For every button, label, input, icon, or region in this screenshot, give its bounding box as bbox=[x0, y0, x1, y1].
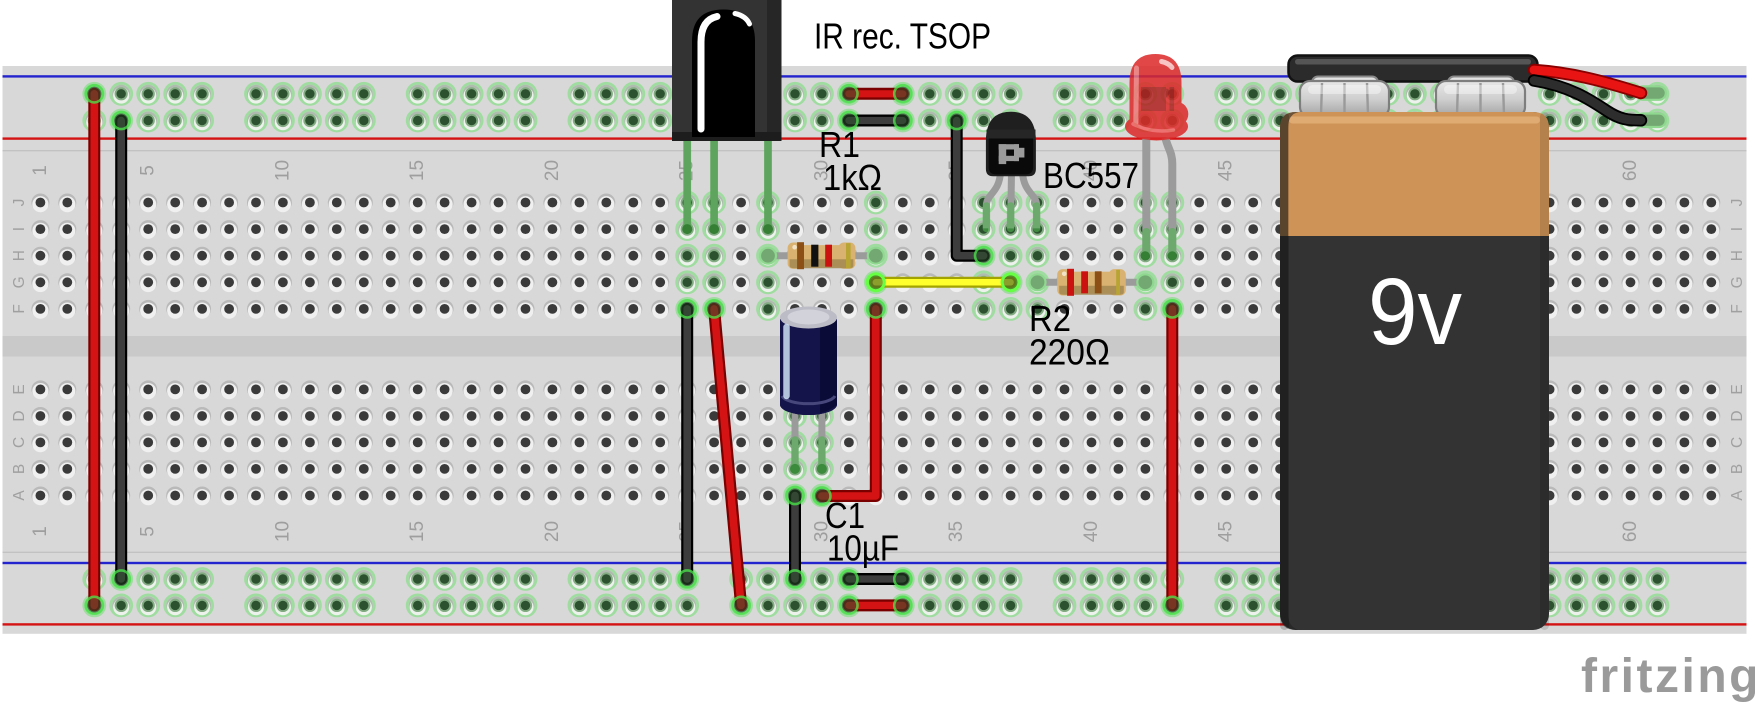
wire W2 black rail-to-rail left bbox=[113, 113, 129, 129]
center divider band bbox=[3, 336, 1747, 357]
svg-text:J: J bbox=[1729, 199, 1746, 207]
transistor Q1 body bbox=[986, 112, 1036, 177]
svg-text:G: G bbox=[1729, 276, 1746, 288]
svg-text:5: 5 bbox=[138, 526, 159, 537]
svg-text:F: F bbox=[1729, 304, 1746, 313]
LED D1 leg anode (right) bbox=[1166, 138, 1173, 255]
transistor Q1 leg middle (base) bbox=[1007, 172, 1015, 228]
capacitor C1 leg right bbox=[818, 408, 825, 468]
svg-text:10: 10 bbox=[272, 160, 293, 181]
wire W3 black col25 rowF to bottom rail bbox=[679, 301, 695, 317]
top rail blue line bbox=[3, 75, 1747, 77]
svg-text:fritzing: fritzing bbox=[1581, 650, 1755, 702]
svg-text:220Ω: 220Ω bbox=[1029, 332, 1110, 373]
svg-text:C: C bbox=[1729, 437, 1746, 448]
capacitor C1 body bbox=[780, 394, 837, 415]
IR receiver U1 leg 3 bbox=[764, 138, 771, 229]
battery BT1 snap cap bbox=[1289, 56, 1538, 82]
jumper J1 red top rail row1 bbox=[841, 86, 857, 102]
LED D1 leg cathode (left) bbox=[1142, 138, 1150, 255]
svg-text:20: 20 bbox=[542, 160, 563, 181]
wire W9 yellow col32 rowG to col37 rowG bbox=[866, 273, 885, 292]
svg-text:45: 45 bbox=[1216, 160, 1237, 181]
transistor Q1 leg left (emitter) bbox=[986, 172, 1000, 228]
svg-text:B: B bbox=[1729, 464, 1746, 474]
transistor Q1 logo P bbox=[999, 144, 1025, 164]
wire W8 black L-shape col35 rail2 to col36 rowH bbox=[949, 113, 965, 129]
svg-text:C: C bbox=[11, 437, 28, 448]
battery BT1 terminal left bbox=[1300, 77, 1389, 118]
svg-text:D: D bbox=[1729, 410, 1746, 421]
svg-text:E: E bbox=[1729, 384, 1746, 394]
svg-text:10: 10 bbox=[272, 521, 293, 542]
resistor R2 bbox=[1038, 279, 1064, 286]
IR receiver U1 leg 1 bbox=[684, 138, 691, 229]
svg-text:45: 45 bbox=[1216, 521, 1237, 542]
IR receiver U1 leg 2 bbox=[710, 138, 717, 229]
power rail holes bbox=[84, 83, 105, 104]
svg-text:J: J bbox=[11, 199, 28, 207]
jumper J3 black bottom rail row1 bbox=[841, 571, 857, 587]
battery black lead wire bbox=[1637, 114, 1666, 128]
svg-text:H: H bbox=[11, 250, 28, 261]
top rail red line bbox=[3, 137, 1747, 139]
svg-text:F: F bbox=[11, 304, 28, 313]
svg-text:20: 20 bbox=[542, 521, 563, 542]
bottom rail red line bbox=[3, 623, 1747, 625]
capacitor C1 leg left bbox=[792, 408, 799, 468]
svg-text:40: 40 bbox=[1081, 521, 1102, 542]
wire W4 red slanted col26 rowF to bottom rail col27 bbox=[706, 301, 722, 317]
svg-text:9v: 9v bbox=[1368, 259, 1462, 365]
resistor R1 bbox=[768, 252, 794, 259]
svg-text:BC557: BC557 bbox=[1043, 155, 1139, 196]
jumper J2 black top rail row2 bbox=[841, 113, 857, 129]
transistor Q1 leg right (collector) bbox=[1023, 172, 1037, 228]
svg-text:15: 15 bbox=[407, 160, 428, 181]
svg-text:1: 1 bbox=[30, 526, 51, 537]
wire W7 red col43 rowF to bottom rail bbox=[1164, 301, 1180, 317]
svg-text:10µF: 10µF bbox=[827, 528, 899, 569]
svg-text:60: 60 bbox=[1620, 160, 1641, 181]
battery BT1 body bbox=[1280, 112, 1549, 630]
svg-text:IR rec. TSOP: IR rec. TSOP bbox=[814, 16, 991, 57]
svg-text:15: 15 bbox=[407, 521, 428, 542]
svg-text:I: I bbox=[11, 227, 28, 231]
svg-text:A: A bbox=[11, 490, 28, 501]
svg-text:35: 35 bbox=[946, 521, 967, 542]
jumper J4 red bottom rail row2 bbox=[841, 597, 857, 613]
svg-text:E: E bbox=[11, 384, 28, 394]
LED D1 body bbox=[1125, 54, 1188, 141]
breadboard holes main grid bbox=[31, 194, 49, 213]
wire W1 red rail-to-rail left bbox=[86, 86, 102, 102]
svg-text:B: B bbox=[11, 464, 28, 474]
svg-text:A: A bbox=[1729, 490, 1746, 501]
wire W5 black short col29 rowA to bottom rail bbox=[787, 571, 803, 587]
svg-text:1kΩ: 1kΩ bbox=[823, 157, 882, 198]
svg-text:I: I bbox=[1729, 227, 1746, 231]
svg-text:H: H bbox=[1729, 250, 1746, 261]
svg-text:D: D bbox=[11, 410, 28, 421]
battery BT1 terminal right bbox=[1436, 77, 1525, 118]
svg-text:1: 1 bbox=[30, 165, 51, 176]
battery red lead wire bbox=[1637, 86, 1666, 100]
wire W6 red L-shape col32 rowF to col30 rowA bbox=[814, 488, 830, 504]
svg-text:60: 60 bbox=[1620, 521, 1641, 542]
svg-text:G: G bbox=[11, 276, 28, 288]
bottom rail blue line bbox=[3, 562, 1747, 564]
svg-text:5: 5 bbox=[138, 165, 159, 176]
IR receiver U1 body bbox=[672, 0, 782, 141]
